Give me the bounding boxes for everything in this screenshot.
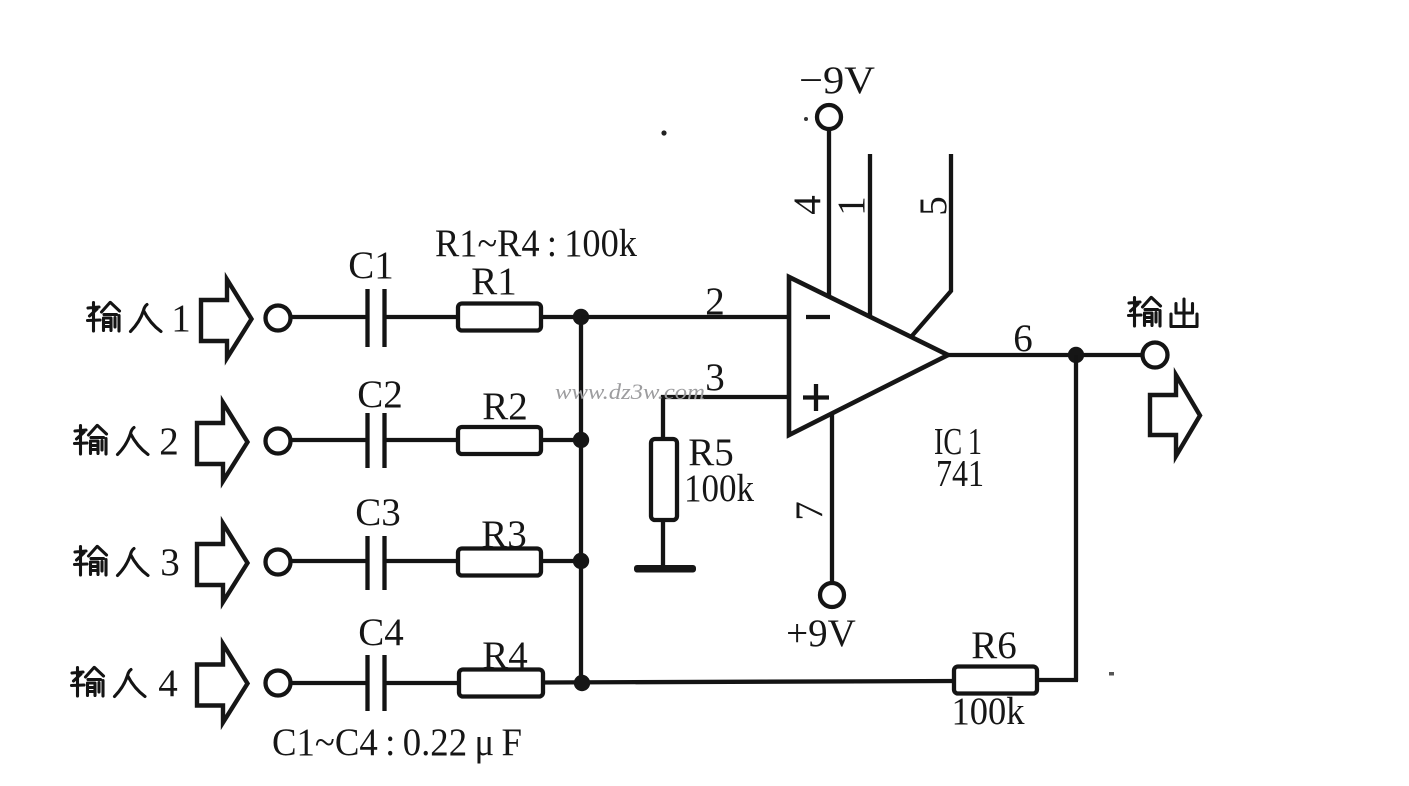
label IC1 bbox=[934, 421, 982, 463]
wire pin3 bbox=[663, 397, 789, 439]
terminal input1 bbox=[266, 306, 291, 331]
wire pin5 bbox=[911, 154, 951, 337]
resistor R6 bbox=[954, 667, 1037, 694]
svg-text:5: 5 bbox=[912, 196, 955, 216]
svg-text:C4: C4 bbox=[358, 611, 404, 654]
wire input3 a bbox=[291, 559, 366, 563]
terminal output bbox=[1143, 343, 1168, 368]
arrow input4 bbox=[197, 644, 248, 723]
junction node row1 bbox=[573, 309, 589, 325]
label input2 输入 2 bbox=[75, 420, 179, 463]
terminal input3 bbox=[266, 550, 291, 575]
svg-text:R6: R6 bbox=[971, 624, 1017, 667]
wire pin4 bbox=[827, 129, 831, 298]
ground bbox=[634, 565, 696, 573]
resistor R3 bbox=[458, 549, 541, 576]
wire input1 b bbox=[386, 315, 459, 319]
arrow output bbox=[1150, 375, 1200, 456]
wire pin1 bbox=[868, 154, 872, 318]
terminal +9V bbox=[820, 583, 844, 607]
svg-text:6: 6 bbox=[1013, 317, 1033, 360]
svg-text:R4: R4 bbox=[482, 634, 528, 677]
svg-text:R1: R1 bbox=[471, 260, 517, 303]
label R5 value 100k bbox=[684, 467, 754, 510]
wire R6 to feedback bbox=[1035, 678, 1078, 682]
svg-text:R1~R4 : 100k: R1~R4 : 100k bbox=[435, 222, 637, 265]
capacitor C1 bbox=[368, 289, 385, 347]
label R6 bbox=[971, 624, 1017, 667]
svg-text:100k: 100k bbox=[952, 690, 1025, 733]
wire output pin6 bbox=[948, 353, 1143, 357]
resistor R1 bbox=[458, 304, 541, 331]
label R1-R4 value bbox=[435, 222, 637, 265]
svg-text:R3: R3 bbox=[481, 513, 527, 556]
svg-text:+9V: +9V bbox=[786, 612, 856, 655]
svg-text:1: 1 bbox=[830, 196, 873, 216]
label input4 输入 4 bbox=[72, 662, 178, 705]
label C2 bbox=[357, 373, 403, 416]
svg-text:7: 7 bbox=[788, 501, 831, 521]
wire input3 c bbox=[541, 559, 584, 563]
bus wire vertical bbox=[579, 317, 583, 683]
speck top bbox=[661, 130, 666, 135]
arrow input3 bbox=[197, 524, 248, 603]
arrow input2 bbox=[197, 403, 248, 482]
terminal -9V bbox=[817, 105, 841, 129]
svg-text:4: 4 bbox=[786, 195, 829, 215]
svg-text:741: 741 bbox=[936, 453, 984, 495]
svg-text:1: 1 bbox=[171, 297, 191, 340]
label R2 bbox=[482, 385, 528, 428]
svg-text:100k: 100k bbox=[684, 467, 754, 510]
wire input2 c bbox=[541, 438, 584, 442]
pin 2 label bbox=[705, 280, 725, 323]
capacitor C3 bbox=[368, 536, 385, 590]
wire input4 b bbox=[386, 681, 459, 685]
junction node row2 bbox=[573, 432, 589, 448]
wire input3 b bbox=[386, 559, 459, 563]
svg-text:3: 3 bbox=[705, 356, 725, 399]
svg-text:2: 2 bbox=[705, 280, 725, 323]
pin 5 label bbox=[912, 196, 955, 216]
wire input2 b bbox=[386, 438, 459, 442]
pin 4 label bbox=[786, 195, 829, 215]
label C1-C4 value bbox=[272, 721, 522, 764]
op-amp minus sign bbox=[806, 315, 830, 319]
svg-text:R2: R2 bbox=[482, 385, 528, 428]
capacitor C4 bbox=[368, 655, 385, 711]
label input3 输入 3 bbox=[75, 541, 180, 584]
label input1 输入 1 bbox=[88, 297, 191, 340]
label R6 value 100k bbox=[952, 690, 1025, 733]
resistor R4 bbox=[459, 670, 543, 697]
op-amp plus sign bbox=[803, 384, 829, 411]
label +9V bbox=[786, 612, 856, 655]
label R1 bbox=[471, 260, 517, 303]
label output 输出 bbox=[1129, 298, 1198, 327]
wire pin2 bbox=[581, 315, 789, 319]
junction node row4 bbox=[574, 675, 590, 691]
svg-text:C3: C3 bbox=[355, 491, 401, 534]
speck near -9V bbox=[804, 117, 808, 121]
wire input4 a bbox=[291, 681, 366, 685]
watermark www.dz3w.com bbox=[555, 379, 705, 404]
svg-text:C2: C2 bbox=[357, 373, 403, 416]
svg-text:4: 4 bbox=[158, 662, 178, 705]
wire input4 feedback run bbox=[543, 681, 956, 683]
svg-text:2: 2 bbox=[159, 420, 179, 463]
wire R5 to ground bbox=[661, 520, 665, 566]
label C3 bbox=[355, 491, 401, 534]
label R3 bbox=[481, 513, 527, 556]
pin 7 label bbox=[788, 501, 831, 521]
label C4 bbox=[358, 611, 404, 654]
wire pin7 bbox=[830, 414, 834, 583]
op-amp U1 triangle bbox=[789, 277, 948, 435]
pin 3 label bbox=[705, 356, 725, 399]
label -9V bbox=[799, 59, 875, 102]
terminal input2 bbox=[266, 429, 291, 454]
label R4 bbox=[482, 634, 528, 677]
wire input1 c bbox=[541, 315, 584, 319]
resistor R2 bbox=[458, 427, 541, 454]
wire input2 a bbox=[291, 438, 366, 442]
label R5 bbox=[688, 431, 734, 474]
wire input1 a bbox=[291, 315, 366, 319]
svg-text:3: 3 bbox=[160, 541, 180, 584]
svg-text:www.dz3w.com: www.dz3w.com bbox=[555, 379, 705, 404]
junction node row3 bbox=[573, 553, 589, 569]
arrow input1 bbox=[201, 280, 252, 359]
pin 6 label bbox=[1013, 317, 1033, 360]
junction node output bbox=[1068, 347, 1084, 363]
terminal input4 bbox=[266, 671, 291, 696]
svg-text:C1: C1 bbox=[348, 244, 394, 287]
label C1 bbox=[348, 244, 394, 287]
svg-text:−9V: −9V bbox=[799, 59, 875, 102]
wire feedback vertical bbox=[1074, 355, 1078, 681]
resistor R5 bbox=[651, 439, 677, 520]
label 741 bbox=[936, 453, 984, 495]
pin 1 label bbox=[830, 196, 873, 216]
capacitor C2 bbox=[368, 413, 385, 468]
svg-text:C1~C4 : 0.22 μ F: C1~C4 : 0.22 μ F bbox=[272, 721, 522, 764]
speck right bbox=[1109, 672, 1114, 676]
